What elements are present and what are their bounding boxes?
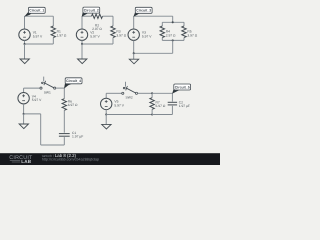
switch SW2 bbox=[122, 82, 138, 95]
wire R4 top lead bbox=[161, 22, 163, 26]
wire c1 top bbox=[25, 15, 54, 17]
label R1 value bbox=[57, 30, 67, 37]
wire R7 top lead bbox=[151, 93, 153, 97]
svg-text:C2: C2 bbox=[179, 101, 183, 105]
wire c2 top right bbox=[103, 15, 114, 17]
svg-text:Circuit_5: Circuit_5 bbox=[175, 85, 190, 89]
wire c4 return upper bbox=[24, 113, 41, 115]
wire R7 bottom lead bbox=[151, 109, 153, 114]
node c3 bottom bus junction bbox=[172, 39, 174, 41]
wire c5 left lower bbox=[105, 110, 107, 115]
flag node Circuit_4 bbox=[64, 78, 82, 89]
wire c5 bottom left bbox=[106, 114, 152, 116]
wire R6-C1 link bbox=[63, 110, 65, 132]
wire c4 left upper bbox=[23, 88, 25, 92]
node c3 ground junction bbox=[133, 52, 135, 54]
ground c2 bbox=[78, 59, 87, 64]
wire c3 bottom bbox=[134, 52, 173, 54]
ground c1 bbox=[20, 59, 29, 64]
svg-text:V5: V5 bbox=[114, 100, 118, 104]
svg-text:LAB: LAB bbox=[21, 159, 31, 164]
node c5 R7 bottom junction bbox=[151, 113, 153, 115]
svg-text:R3: R3 bbox=[116, 30, 120, 34]
node c5 ground junction bbox=[105, 113, 107, 115]
wire c1 ground stub bbox=[24, 44, 26, 59]
svg-text:6.97 Ω: 6.97 Ω bbox=[68, 104, 78, 108]
svg-text:2.97 Ω: 2.97 Ω bbox=[166, 34, 176, 38]
wire c3 bottom bus bbox=[162, 39, 184, 41]
label V1 value bbox=[33, 31, 43, 38]
wire C2 top lead bbox=[171, 93, 173, 101]
svg-text:2.97 Ω: 2.97 Ω bbox=[92, 28, 102, 32]
wire c2 top left bbox=[82, 15, 92, 17]
wire c3 bottom drop bbox=[172, 40, 174, 53]
capacitor C1 bbox=[59, 134, 70, 137]
wire c5 left upper bbox=[105, 93, 107, 98]
svg-text:5.97 V: 5.97 V bbox=[142, 35, 152, 39]
voltage source V5 bbox=[101, 98, 112, 109]
voltage source V3 bbox=[128, 29, 139, 40]
svg-text:5.97 V: 5.97 V bbox=[32, 99, 42, 103]
flag node Circuit_1 bbox=[24, 7, 45, 16]
flag node Circuit_2 bbox=[82, 7, 100, 17]
resistor R7 bbox=[150, 98, 154, 110]
wire c5 top mid bbox=[138, 92, 153, 94]
resistor R3 bbox=[111, 26, 115, 38]
label C1 value bbox=[72, 131, 83, 138]
svg-text:5.97 V: 5.97 V bbox=[90, 35, 100, 39]
wire c3 ground stub bbox=[133, 53, 135, 59]
svg-text:1.97 µF: 1.97 µF bbox=[72, 135, 83, 139]
ground c5 bbox=[102, 124, 111, 129]
label V3 value bbox=[142, 31, 152, 38]
svg-text:3.97 Ω: 3.97 Ω bbox=[187, 34, 197, 38]
label R6 value bbox=[68, 100, 78, 107]
svg-text:Circuit_2: Circuit_2 bbox=[84, 8, 99, 12]
svg-text:5.97 V: 5.97 V bbox=[114, 104, 124, 108]
wire C1 bottom lead bbox=[63, 137, 65, 145]
node c2 ground junction bbox=[81, 43, 83, 45]
resistor R2 bbox=[92, 14, 103, 18]
switch SW1 bbox=[40, 77, 56, 90]
wire R6 top lead bbox=[63, 88, 65, 99]
wire c2 right upper bbox=[112, 16, 114, 26]
label C2 value bbox=[179, 101, 190, 108]
svg-text:Circuit_1: Circuit_1 bbox=[29, 9, 44, 13]
wire c2 ground stub bbox=[81, 44, 83, 59]
ground c3 bbox=[129, 59, 138, 64]
resistor R1 bbox=[51, 26, 55, 38]
CircuitLab logo bbox=[9, 154, 32, 164]
wire c4 left lower bbox=[23, 104, 25, 114]
svg-text:V3: V3 bbox=[142, 31, 146, 35]
wire c3 top bus bbox=[162, 21, 184, 23]
wire c2 left upper bbox=[81, 16, 83, 29]
voltage source V4 bbox=[18, 93, 29, 104]
node c1 ground junction bbox=[23, 43, 25, 45]
wire c5 top left bbox=[106, 92, 122, 94]
label R3 value bbox=[116, 30, 126, 37]
svg-text:C1: C1 bbox=[72, 131, 76, 135]
label V4 value bbox=[32, 95, 42, 102]
wire c3 top bbox=[134, 15, 173, 17]
wire c2 right lower bbox=[112, 38, 114, 44]
svg-text:SW2: SW2 bbox=[126, 96, 133, 100]
svg-text:V2: V2 bbox=[90, 31, 94, 35]
resistor R5 bbox=[182, 26, 186, 38]
wire C2 bottom lead bbox=[171, 106, 173, 115]
wire c5 top right bbox=[152, 92, 172, 94]
svg-text:5.97 V: 5.97 V bbox=[33, 35, 43, 39]
voltage source V2 bbox=[76, 29, 87, 40]
svg-text:SW1: SW1 bbox=[44, 91, 51, 95]
svg-text:R6: R6 bbox=[68, 100, 72, 104]
svg-text:http://circuitlab.com/c54a288q: http://circuitlab.com/c54a288q53ap bbox=[42, 157, 99, 162]
wire c4 top right bbox=[56, 87, 65, 89]
wire c5 ground stub bbox=[105, 115, 107, 125]
wire c1 right lower bbox=[52, 38, 54, 44]
resistor R6 bbox=[62, 99, 66, 111]
footer bar bbox=[0, 153, 220, 165]
svg-text:V4: V4 bbox=[32, 95, 36, 99]
label R4 value bbox=[166, 30, 176, 37]
voltage source V1 bbox=[19, 29, 30, 40]
svg-text:R7: R7 bbox=[156, 101, 160, 105]
flag node Circuit_3 bbox=[133, 7, 152, 16]
wire c4 ground stub bbox=[23, 114, 25, 124]
svg-text:Circuit_3: Circuit_3 bbox=[136, 9, 151, 13]
wire c2 left lower bbox=[81, 40, 83, 44]
wire c1 left upper bbox=[24, 16, 26, 29]
label R5 value bbox=[187, 30, 197, 37]
svg-text:R5: R5 bbox=[187, 30, 191, 34]
svg-text:1.97 Ω: 1.97 Ω bbox=[57, 34, 67, 38]
svg-text:R1: R1 bbox=[57, 30, 61, 34]
label V5 value bbox=[114, 100, 124, 107]
node c5 R7 top junction bbox=[151, 92, 153, 94]
wire c3 left lower bbox=[133, 40, 135, 53]
wire c4 return bottom bbox=[41, 144, 65, 146]
svg-text:1.97 µF: 1.97 µF bbox=[179, 105, 190, 109]
label R2 value bbox=[92, 24, 102, 31]
wire c1 left lower bbox=[24, 40, 26, 44]
wire c1 right upper bbox=[52, 16, 54, 26]
label V2 value bbox=[90, 31, 100, 38]
svg-text:Circuit_4: Circuit_4 bbox=[66, 79, 81, 83]
capacitor C2 bbox=[168, 102, 177, 105]
node c3 top bus junction bbox=[172, 21, 174, 23]
node c4 ground junction bbox=[23, 113, 25, 115]
wire R5 top lead bbox=[183, 22, 185, 26]
svg-text:3.97 Ω: 3.97 Ω bbox=[116, 34, 126, 38]
svg-text:6.97 Ω: 6.97 Ω bbox=[156, 105, 166, 109]
wire c1 bottom bbox=[25, 43, 54, 45]
wire c4 return vertical bbox=[40, 114, 42, 145]
svg-text:V1: V1 bbox=[33, 31, 37, 35]
wire c3 top drop bbox=[172, 16, 174, 22]
wire c3 left upper bbox=[133, 16, 135, 29]
wire c2 bottom bbox=[82, 43, 113, 45]
svg-text:R2: R2 bbox=[95, 24, 99, 28]
ground c4 bbox=[19, 124, 28, 129]
flag node Circuit_5 bbox=[172, 84, 191, 94]
label R7 value bbox=[156, 101, 166, 108]
resistor R4 bbox=[160, 26, 164, 38]
wire R5 bottom lead bbox=[183, 38, 185, 41]
wire R4 bottom lead bbox=[161, 38, 163, 41]
wire c4 top left bbox=[24, 87, 40, 89]
wire c5 bottom right bbox=[152, 114, 172, 116]
svg-text:R4: R4 bbox=[166, 30, 170, 34]
